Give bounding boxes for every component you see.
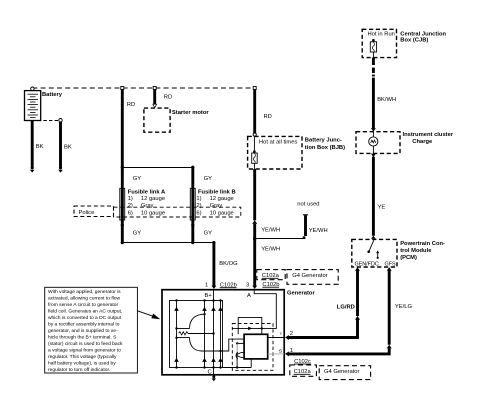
wire YE/WH continues [253, 224, 256, 239]
wire battery negative dashed link [32, 120, 59, 122]
svg-text:Battery Junc-: Battery Junc- [305, 138, 342, 144]
svg-text:not used: not used [297, 202, 319, 208]
svg-text:G4 Generator: G4 Generator [324, 369, 360, 375]
label Powertrain Control Module [400, 241, 445, 261]
regulator dashed box [232, 324, 273, 371]
svg-text:Fusible link B: Fusible link B [198, 190, 236, 196]
wire BK/OG to generator B+ [212, 243, 215, 286]
connector arrow at generator pin 2 [285, 335, 289, 340]
svg-text:BK: BK [64, 145, 72, 151]
svg-text:LG/RD: LG/RD [337, 305, 355, 311]
battery junction box BJB [248, 136, 302, 169]
label Fusible link A [128, 190, 166, 217]
svg-text:Fusible link A: Fusible link A [128, 190, 166, 196]
fusible link A symbol [120, 167, 125, 242]
loop over regulator [238, 317, 262, 334]
wire C to case ground [213, 368, 215, 375]
wire YE/WH from BJB [253, 169, 256, 220]
starter motor box [144, 108, 170, 132]
svg-text:Police: Police [79, 210, 95, 216]
svg-text:1): 1) [128, 196, 133, 202]
wire stator to regulator [202, 339, 245, 351]
rectifier bridge rect [170, 301, 223, 368]
connector arrow at generator pin 1 [285, 351, 289, 356]
connector box C102a [257, 270, 285, 280]
svg-text:regulator to turn off indicato: regulator to turn off indicator. [48, 367, 110, 373]
stator winding mid with field zigzag [177, 329, 214, 338]
stator winding upper arc [190, 314, 205, 328]
note text box [45, 287, 138, 373]
svg-text:1): 1) [196, 196, 201, 202]
svg-text:RD: RD [127, 102, 135, 108]
connector arrow C102a [252, 286, 257, 289]
wire regulator to pin I [268, 337, 285, 339]
svg-text:half battery voltage), is used: half battery voltage), is used by [48, 361, 116, 367]
svg-text:With voltage applied, generato: With voltage applied, generator is [48, 289, 121, 295]
sense arrow inside PCM [376, 250, 379, 259]
svg-text:tion Box (BJB): tion Box (BJB) [305, 145, 345, 151]
ground generator case [212, 375, 216, 381]
wire branch to not used [255, 238, 304, 240]
svg-text:a voltage signal from generato: a voltage signal from generator to [48, 348, 121, 354]
svg-text:6): 6) [128, 210, 133, 216]
svg-text:GY: GY [133, 231, 142, 237]
svg-text:C: C [208, 369, 212, 375]
svg-text:GY: GY [204, 231, 213, 237]
svg-text:Box (CJB): Box (CJB) [400, 38, 428, 44]
svg-text:GY: GY [133, 176, 142, 182]
connector arrow into cluster [371, 128, 376, 131]
svg-text:YE/WH: YE/WH [261, 228, 280, 234]
node battery aux terminal [59, 119, 62, 122]
connector arrow mid LG/RD [355, 316, 360, 320]
GY bus upper [121, 166, 195, 169]
svg-text:Battery: Battery [42, 92, 63, 98]
connector arrow C102b [211, 286, 216, 289]
svg-text:BK: BK [36, 144, 44, 150]
svg-text:from sense A circuit to genera: from sense A circuit to generator [48, 302, 119, 308]
svg-text:GY: GY [204, 176, 213, 182]
wire regulator to pin S [268, 353, 285, 355]
field transistor [236, 342, 244, 369]
svg-text:Instrument cluster: Instrument cluster [403, 132, 454, 138]
svg-text:GFS: GFS [385, 261, 396, 267]
svg-text:RD: RD [264, 114, 272, 120]
wire RD to BJB [253, 90, 256, 134]
diode column 4 [218, 299, 223, 368]
police option box [74, 206, 114, 217]
label Fusible link B [196, 190, 235, 217]
svg-text:Gray: Gray [210, 203, 223, 209]
lamp charge indicator [369, 132, 378, 154]
svg-text:activated, allowing current to: activated, allowing current to flow [48, 296, 121, 302]
ground battery right [58, 166, 63, 172]
svg-text:Charge: Charge [412, 139, 433, 145]
node tap square at RD wire 2 [153, 87, 156, 90]
connector arrow into starter [153, 104, 157, 107]
powertrain control module PCM [352, 239, 397, 267]
label C102b [220, 282, 237, 288]
svg-text:YE/WH: YE/WH [261, 247, 280, 253]
svg-text:(PCM): (PCM) [400, 255, 417, 261]
svg-text:Starter motor: Starter motor [172, 110, 209, 116]
sense A line inside generator [232, 290, 276, 331]
wire YE/WH to generator A [253, 239, 256, 287]
node BJB terminal [253, 133, 256, 136]
svg-text:3: 3 [246, 282, 249, 288]
svg-text:GEN/FDC: GEN/FDC [355, 261, 379, 267]
stub not used [303, 215, 308, 236]
connector arrow on YE/WH [252, 220, 257, 224]
fusible link B symbol [190, 167, 195, 242]
connector box G4 Generator lower [319, 366, 370, 380]
fuse F2 in CJB [370, 39, 376, 58]
svg-text:(stator) circuit is used to fe: (stator) circuit is used to feed back [48, 341, 123, 347]
label Central Junction Box [400, 31, 446, 43]
wire battery ground right BK [59, 122, 62, 167]
label Battery Junction Box [305, 138, 345, 151]
svg-text:Generator: Generator [287, 291, 315, 297]
wire YE/LG vertical [388, 270, 391, 345]
wire hot bus dashed [32, 87, 254, 89]
police option dashed outline [114, 207, 241, 217]
svg-text:6): 6) [196, 210, 201, 216]
svg-text:which is converted to a DC out: which is converted to a DC output [48, 315, 122, 321]
svg-text:BK/WH: BK/WH [377, 97, 396, 103]
svg-text:2): 2) [128, 203, 133, 209]
svg-text:Powertrain Con-: Powertrain Con- [400, 241, 445, 247]
diode column 1 [174, 299, 179, 368]
connector arrow LG/RD top [355, 267, 360, 270]
svg-text:I: I [280, 331, 281, 337]
svg-text:1: 1 [290, 348, 293, 354]
regulator ground path [223, 359, 251, 368]
switch inside PCM [367, 240, 373, 253]
svg-text:Gray: Gray [141, 203, 154, 209]
central junction box CJB [362, 29, 396, 57]
instrument cluster box [356, 132, 400, 154]
svg-text:field coil. Generates an AC ou: field coil. Generates an AC output, [48, 309, 122, 315]
svg-text:1: 1 [205, 282, 208, 288]
svg-text:BK/OG: BK/OG [219, 261, 238, 267]
svg-text:RD: RD [164, 95, 172, 101]
svg-text:regulator. This voltage (typic: regulator. This voltage (typically [48, 354, 117, 360]
svg-text:by a rectifier assembly intern: by a rectifier assembly internal to [48, 322, 120, 328]
connector arrow YE/LG top [387, 267, 392, 270]
connector arrow out of cluster [371, 154, 376, 158]
connector box C102a lower [290, 365, 317, 376]
svg-text:2: 2 [290, 331, 293, 337]
voltage regulator box [244, 334, 268, 359]
note arrow [137, 311, 160, 320]
svg-text:YE/WH: YE/WH [309, 228, 328, 234]
stator winding lower arc [190, 338, 202, 352]
svg-text:A: A [247, 293, 251, 299]
svg-text:12 gauge: 12 gauge [141, 196, 165, 202]
svg-text:YE/LG: YE/LG [395, 304, 413, 310]
svg-text:generator, and is supplied to: generator, and is supplied to ve- [48, 328, 118, 334]
GY bus lower [121, 241, 216, 244]
svg-text:2): 2) [196, 203, 201, 209]
wire BK/WH partial [372, 58, 375, 129]
node tap square at RD wire 3 [253, 87, 256, 90]
connector box G4 Generator upper [287, 270, 338, 285]
wire LG/RD lower [289, 320, 358, 338]
label C102c [294, 359, 311, 365]
svg-text:Hot at all times: Hot at all times [259, 140, 297, 146]
battery B1 [25, 87, 41, 121]
svg-text:10 gauge: 10 gauge [141, 210, 165, 216]
label C102b [262, 282, 279, 288]
ground battery left [30, 166, 35, 172]
label Instrument cluster [403, 132, 454, 145]
diode column 3 B+ [211, 290, 216, 369]
svg-text:10 gauge: 10 gauge [210, 210, 234, 216]
node tap square at RD wire 1 [121, 87, 124, 90]
svg-text:hicle through the B+ terminal.: hicle through the B+ terminal. S [48, 335, 117, 341]
generator box [162, 290, 284, 375]
svg-text:YE: YE [378, 205, 386, 211]
terminal square not used [303, 236, 306, 239]
wire YE cluster to PCM [372, 157, 375, 236]
svg-text:G4 Generator: G4 Generator [292, 273, 328, 279]
svg-text:12 gauge: 12 gauge [210, 196, 234, 202]
connector arrow into PCM [371, 236, 376, 239]
svg-text:trol Module: trol Module [400, 248, 432, 254]
diode column 2 [202, 299, 207, 368]
wire LG/RD vertical [356, 270, 359, 316]
wire RD to starter motor [153, 90, 156, 105]
wire YE/LG lower [289, 348, 390, 354]
wire battery ground left BK [31, 121, 34, 167]
connector arrow mid YE/LG [387, 345, 392, 349]
fuse F1 in BJB [252, 136, 258, 169]
svg-text:B+: B+ [205, 293, 213, 299]
node splice [253, 237, 256, 240]
wire RD to fusible links [121, 90, 124, 168]
svg-text:Hot in Run: Hot in Run [368, 32, 395, 38]
svg-text:Central Junction: Central Junction [400, 31, 446, 37]
